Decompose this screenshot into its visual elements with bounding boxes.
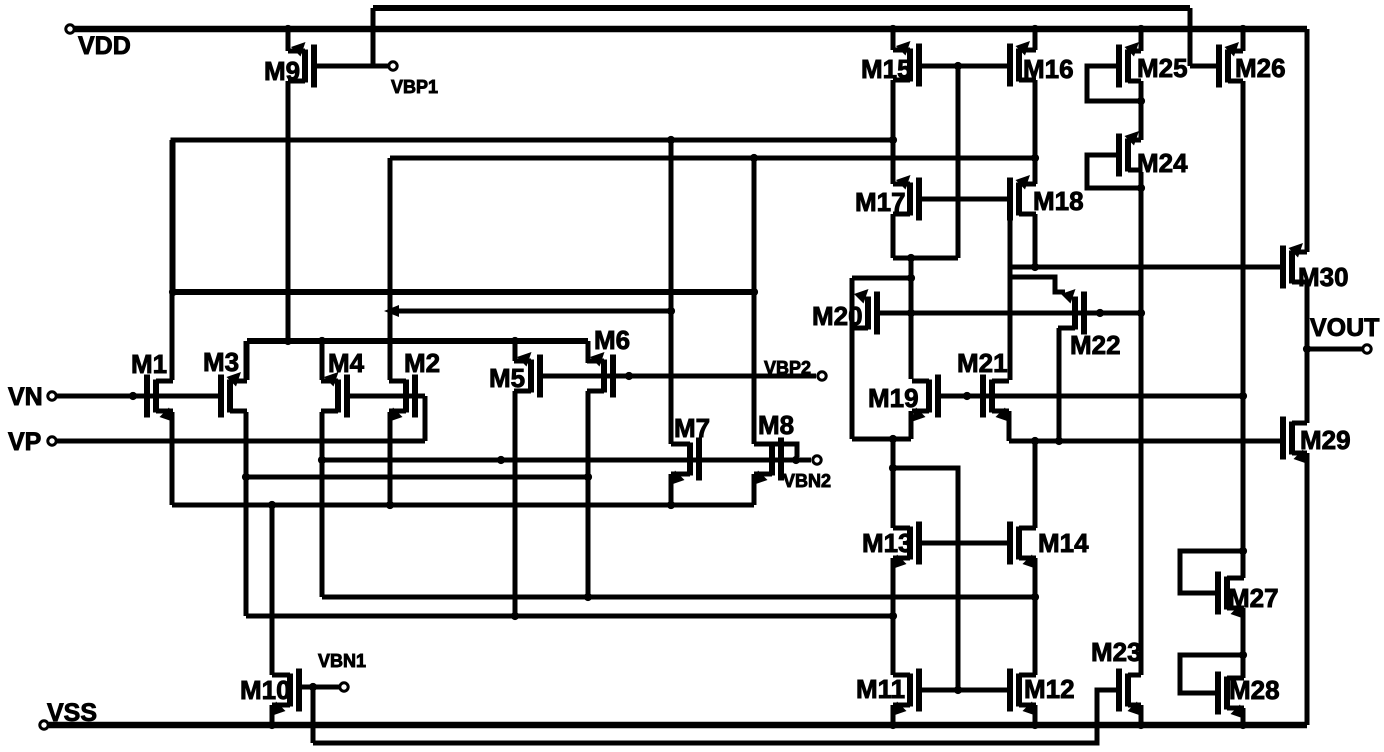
svg-text:VP: VP [8, 428, 41, 456]
junction bus616 end at M11 column [889, 612, 897, 620]
wire M18 gate-bar tie down [1008, 220, 1013, 380]
wire M20 wrap y=278 [852, 276, 911, 281]
svg-text:M9: M9 [264, 56, 300, 86]
junction bus477 right [584, 473, 592, 481]
wire y=267 line to M30 gate [1010, 265, 1283, 270]
wire VBP1 top bus (y=8) [373, 5, 1190, 11]
wire gate bus y=460 (M4 drain to VBN2) [322, 458, 811, 463]
transistor M10 [240, 669, 299, 717]
junction gate tie at x=958 bottom [954, 686, 962, 694]
junction bus597 end at M14 column [1031, 593, 1039, 601]
wire M23 drain up / M24 column [1139, 172, 1144, 675]
wire M14 drain vertical [1033, 441, 1038, 528]
svg-text:M25: M25 [1137, 53, 1188, 83]
junction bus158 at x=754 [750, 154, 758, 162]
junction M15/M16 gate line [954, 62, 962, 70]
transistor M6 [587, 325, 630, 398]
svg-text:M13: M13 [862, 528, 913, 558]
wire M9 source to VDD [286, 29, 291, 51]
transistor M25 [1119, 42, 1188, 88]
transistor M17 [855, 175, 919, 221]
wire gate line M19-M21 to M26 drain [938, 394, 1243, 399]
wire M19 source down [909, 411, 914, 439]
svg-text:M7: M7 [674, 413, 710, 443]
wire M30 drain to M29 source (VOUT column) [1305, 282, 1310, 423]
wire M20 wrap vertical x=852 [850, 278, 855, 439]
wire bus y=477 (M3 drain to M6 drain) [246, 475, 588, 480]
wire M4 drain down [320, 412, 325, 597]
transistor M5 [489, 352, 540, 398]
wire x=958 vertical (gates to y258) [956, 66, 961, 258]
svg-text:M28: M28 [1229, 675, 1280, 705]
wire gate line M20-M22 [877, 311, 1141, 316]
wire M16 source to VDD [1033, 29, 1038, 50]
svg-text:VN: VN [8, 383, 43, 411]
wire M2 drain up [388, 158, 393, 380]
transistor M23 [1091, 637, 1142, 716]
transistor M27 [1218, 572, 1279, 620]
junction tail at M9 drain [284, 337, 292, 345]
wire bus y=158 [390, 156, 1035, 161]
wire M10 gate to VBN1 [299, 685, 339, 690]
svg-text:M10: M10 [240, 675, 291, 705]
transistor M20 [812, 289, 877, 335]
svg-text:M26: M26 [1235, 53, 1286, 83]
wire M26 drain down to M27 [1241, 81, 1246, 578]
wire x=754 vertical (bus158 to M8 drain) [752, 158, 757, 444]
wire M5 source up [513, 341, 518, 361]
junction VOUT tap [1303, 345, 1311, 353]
svg-text:M12: M12 [1024, 674, 1075, 704]
transistor M26 [1219, 42, 1286, 88]
junction M28 source on VSS [1239, 721, 1247, 729]
wire VDD right drop to M30 source [1305, 29, 1310, 252]
wire y=441 line to M29 gate [1009, 439, 1283, 444]
wire M27 source down to M28 [1241, 608, 1246, 678]
svg-text:M27: M27 [1228, 583, 1279, 613]
svg-text:VOUT: VOUT [1310, 314, 1379, 342]
junction bus292 left at M1 drain column [169, 288, 177, 296]
junction bus616 at M5 drain [511, 612, 519, 620]
wire VBP1 bus right drop to M26 gate [1190, 8, 1219, 66]
svg-text:VBN1: VBN1 [318, 651, 366, 671]
svg-text:M23: M23 [1091, 637, 1142, 667]
wire M26 source to VDD [1241, 29, 1246, 51]
junction bus311 at M7-drain column [667, 307, 675, 315]
svg-text:VBP1: VBP1 [391, 77, 438, 97]
wire M4 source up to tail line [320, 341, 325, 380]
svg-text:M18: M18 [1033, 186, 1084, 216]
wire VBP1 bus left drop to M9 gate [371, 8, 376, 66]
junction on gate bus near M5 [497, 456, 505, 464]
svg-text:M29: M29 [1300, 425, 1351, 455]
transistor M2 [388, 348, 440, 422]
wire bus y=616 (M3/M5 drains to M11) [246, 614, 893, 619]
svg-text:VBP2: VBP2 [764, 358, 811, 378]
transistor M29 [1283, 417, 1351, 465]
wire M21 source down [1007, 411, 1012, 441]
junction y441 at M22 source [1055, 437, 1063, 445]
wire tail bus y=505 [172, 503, 754, 508]
junction bus597 at M6 drain [584, 593, 592, 601]
wire x=911 vertical (to M19 drain) [909, 258, 914, 379]
wire M11 source to VSS [891, 705, 896, 725]
svg-text:M19: M19 [868, 383, 919, 413]
junction M24 hook on drain [1137, 184, 1145, 192]
wire x=893 vertical down [891, 439, 896, 528]
wire M17 drain down [891, 214, 896, 258]
transistor M14 [1010, 522, 1089, 570]
junction y258 at M19-drain column [907, 254, 915, 262]
transistor M4 [321, 348, 365, 418]
wire gate line M17-M18 [919, 197, 1010, 202]
junction y441 at M14 drain [1031, 437, 1039, 445]
wire tail bus y=341 [247, 341, 588, 380]
wire M2 source down [388, 412, 393, 505]
svg-text:VDD: VDD [78, 32, 131, 60]
junction M9 source on VDD [284, 25, 292, 33]
wire y=258 link [893, 256, 958, 261]
junction M19/M21 gate line [963, 392, 971, 400]
wire M28 gate diode hook [1180, 655, 1240, 693]
wire M3 source up to tail line [244, 341, 249, 380]
junction bus292 right at x=754 [750, 288, 758, 296]
transistor M30 [1283, 243, 1349, 292]
svg-text:M6: M6 [594, 325, 630, 355]
wire M28 source to VSS [1241, 708, 1246, 725]
wire M16 drain to M18 source [1033, 80, 1038, 184]
wire M8 drain diode stub [772, 444, 797, 457]
transistor M7 [670, 413, 710, 485]
wire M7 source down [669, 474, 674, 505]
transistor M11 [856, 669, 919, 717]
wire M6 drain down [586, 391, 591, 597]
junction M27 hook on drain column [1239, 547, 1247, 555]
terminal VBN2 [783, 456, 831, 491]
svg-text:M5: M5 [489, 363, 525, 393]
svg-text:M2: M2 [404, 348, 440, 378]
wire M18 drain down [1033, 214, 1038, 267]
wire M24 gate diode hook [1087, 155, 1138, 188]
wire bottom bias rail y=743 [313, 690, 1117, 743]
junction y267 at M18 drain [1031, 263, 1039, 271]
transistor M19 [868, 375, 938, 423]
wire x=671 vertical (bus140 to M7 drain) [669, 140, 674, 444]
terminal VBP1 [389, 62, 438, 97]
svg-text:M3: M3 [203, 347, 239, 377]
junction M23 source on VSS [1137, 721, 1145, 729]
junction gateline at x=911 [907, 309, 915, 317]
wire cascode bus y=140 [173, 140, 893, 292]
svg-text:M21: M21 [957, 348, 1008, 378]
svg-text:M14: M14 [1038, 528, 1089, 558]
wire gate line M5-M6 to VBP2 [540, 374, 816, 379]
junction M16 source on VDD [1031, 25, 1039, 33]
junction gateline end at M24 column [1137, 309, 1145, 317]
junction VBN1 drop [309, 683, 317, 691]
wire M10 drain vertical [270, 505, 275, 675]
wire M20 bottom lead tie [852, 326, 868, 331]
junction M11 source on VSS [889, 721, 897, 729]
junction M26 source on VDD [1239, 25, 1247, 33]
transistor M16 [1010, 41, 1074, 87]
junction gate bus at M4 drain [318, 456, 326, 464]
junction tail at M5 source [511, 337, 519, 345]
svg-text:VBN2: VBN2 [783, 471, 831, 491]
terminal VDD [66, 25, 131, 60]
junction tail505 at M2 source [386, 501, 394, 509]
wire M23 source to VSS [1139, 705, 1144, 725]
transistor M12 [1010, 669, 1075, 717]
junction bus140 at M7-drain column [667, 136, 675, 144]
junction tail505 at M10 drain [268, 501, 276, 509]
wire bus y=597 (M4/M6 drains to M14) [322, 595, 1035, 600]
wire gate line M11-M12 [919, 688, 1010, 693]
transistor M24 [1119, 131, 1188, 178]
terminal VSS [40, 699, 97, 729]
junction x893 at y468 [889, 464, 897, 472]
wire M29 source down to VSS corner [1305, 453, 1310, 725]
terminal VP [8, 428, 56, 456]
transistor M9 [264, 42, 314, 88]
wire M9 gate to VBP1 [314, 64, 389, 69]
wire M25 gate diode hook [1087, 66, 1138, 101]
junction tail at M4 source [318, 337, 326, 345]
junction y439 at x=893 [889, 435, 897, 443]
wire M15 source to VDD [891, 29, 896, 50]
wire VDD rail [70, 26, 1307, 33]
terminal VOUT [1310, 314, 1379, 353]
svg-text:M24: M24 [1137, 148, 1188, 178]
svg-text:M22: M22 [1070, 330, 1121, 360]
wire M3 drain down [244, 412, 249, 616]
wire M12 source to VSS [1033, 705, 1038, 725]
junction M28 hook on drain column [1239, 651, 1247, 659]
wire M13 source down [891, 558, 896, 675]
junction M10 source on VSS [268, 721, 276, 729]
junction gateline near M22 [1096, 309, 1104, 317]
svg-text:M4: M4 [328, 348, 365, 378]
wire y=439 link [852, 437, 911, 442]
transistor M3 [203, 347, 247, 418]
wire M5 drain down [513, 391, 518, 616]
junction on VBP2 gate line [625, 372, 633, 380]
transistor M18 [1010, 175, 1084, 221]
junction wrap at x=911 [907, 274, 915, 282]
wire M27 gate diode hook [1180, 551, 1240, 593]
transistor M8 [753, 410, 794, 485]
junction on VN wire [129, 392, 137, 400]
wire M25 drain to M24 [1139, 81, 1144, 140]
junction M12 source on VSS [1031, 721, 1039, 729]
terminal VBN1 [318, 651, 366, 691]
wire M10 source to VSS [270, 705, 275, 725]
junction VBN2 diode tap [792, 456, 800, 464]
transistor M22 [1058, 289, 1121, 360]
svg-text:M15: M15 [861, 54, 912, 84]
wire M1 source down [170, 412, 175, 505]
wire gate line M15-M16 [919, 64, 1010, 69]
wire VSS rail [49, 722, 1307, 729]
wire M15 drain to M17 source [891, 80, 896, 184]
wire M25 source to VDD [1139, 29, 1144, 51]
wire y=277 stub to M22 source [1010, 277, 1065, 292]
wire bus y=311 with arrow [384, 305, 671, 317]
wire y=468 link [893, 468, 958, 690]
svg-text:M17: M17 [855, 187, 906, 217]
junction bus477 left [242, 473, 250, 481]
wire M9 drain down to tail [286, 81, 291, 341]
transistor M21 [957, 348, 1010, 422]
junction bus140 end at M15 drain [889, 136, 897, 144]
wire M1 drain up [170, 140, 175, 380]
svg-text:M16: M16 [1023, 54, 1074, 84]
junction M25 source on VDD [1137, 25, 1145, 33]
wire gate line M13-M14 [919, 541, 1010, 546]
transistor M15 [861, 41, 919, 87]
wire VP to M2/M4 gates [57, 396, 425, 441]
wire VN to M1/M3 gates [57, 394, 222, 399]
junction gate line at M26 drain [1239, 392, 1247, 400]
wire VBN1 drop to bottom bias rail [311, 687, 316, 743]
wire M8 source down [752, 474, 757, 505]
transistor M13 [862, 522, 919, 570]
svg-text:M1: M1 [131, 349, 167, 379]
transistor M28 [1218, 672, 1280, 720]
terminal VN [8, 383, 56, 411]
junction tail505 at M7 source [667, 501, 675, 509]
wire M22 source down [1057, 328, 1062, 441]
wire M14 source down [1033, 558, 1038, 675]
junction M15 source on VDD [889, 25, 897, 33]
wire VOUT [1307, 347, 1362, 352]
wire bus y=292 [173, 289, 754, 295]
transistor M1 [131, 349, 174, 422]
svg-text:M8: M8 [758, 410, 794, 440]
terminal VBP2 [764, 358, 826, 380]
svg-text:M11: M11 [856, 674, 905, 704]
junction bus158 end at M16 drain [1031, 154, 1039, 162]
junction M25 hook on drain [1137, 97, 1145, 105]
